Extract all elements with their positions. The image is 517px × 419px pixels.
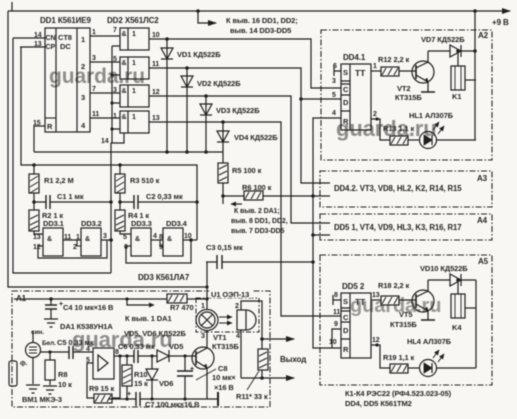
svg-text:КТ315Б: КТ315Б: [212, 342, 239, 351]
svg-text:C3 0,15 мк: C3 0,15 мк: [206, 243, 243, 252]
microphone BM1 MKE-3: [9, 329, 69, 404]
svg-text:К выв. 16 DD1, DD2;: К выв. 16 DD1, DD2;: [226, 16, 298, 25]
svg-text:&: &: [85, 236, 90, 243]
LED HL4 AL307B: [407, 337, 476, 377]
svg-text:K1: K1: [452, 92, 461, 101]
op-amp DA1: [86, 346, 134, 398]
label relays bottom: [345, 389, 452, 408]
node VD4 tap: [221, 120, 225, 124]
wire gate output 13 to DD5.2 C: [149, 122, 341, 316]
svg-text:13: 13: [152, 115, 160, 122]
wire +9V top bus: [8, 10, 510, 12]
svg-text:R13 1,1 к: R13 1,1 к: [383, 124, 415, 133]
pin 4: [240, 330, 242, 378]
svg-text:C6 0,33 мк: C6 0,33 мк: [118, 342, 155, 351]
svg-text:VD6: VD6: [159, 379, 173, 388]
resistor R3 510k: [119, 165, 121, 174]
wire A4 lower stub: [313, 234, 330, 236]
svg-text:+: +: [190, 366, 194, 373]
svg-text:8: 8: [159, 234, 163, 241]
resistor R4 1k: [115, 210, 125, 231]
diode VD4 KD522B: [217, 131, 229, 142]
ground emitter: [421, 91, 435, 93]
wire right vertical A5: [475, 280, 477, 368]
svg-text:R11* 33 к: R11* 33 к: [236, 392, 268, 401]
svg-text:4: 4: [236, 333, 240, 340]
svg-text:1: 1: [113, 113, 117, 120]
resistor R8 10k: [43, 350, 72, 394]
svg-text:&: &: [47, 236, 52, 243]
resistor R13 1.1k: [383, 124, 420, 145]
svg-text:син.: син.: [31, 329, 44, 336]
svg-text:DD4, DD5 К561ТМ2: DD4, DD5 К561ТМ2: [345, 399, 412, 408]
svg-text:K4: K4: [452, 323, 462, 332]
box A1 dashed: [12, 291, 270, 407]
svg-text:DD3.2: DD3.2: [81, 219, 102, 228]
box A3 dashed: [320, 171, 492, 207]
svg-text:DA1 К538УН1А: DA1 К538УН1А: [60, 322, 113, 331]
wire reset bus vertical to A boxes: [311, 118, 341, 348]
svg-text:CP: CP: [46, 44, 56, 51]
wire DD3.4 out: [183, 239, 197, 241]
transistor VT5 KT315B: [390, 280, 435, 329]
diode VD1 KD522B: [161, 48, 173, 59]
svg-text:14: 14: [101, 138, 109, 145]
svg-text:13: 13: [33, 234, 41, 241]
wire CN feedback left: [13, 38, 111, 273]
svg-text:5: 5: [332, 92, 336, 99]
svg-text:R6 100 к: R6 100 к: [242, 183, 272, 192]
pin 14 common stub: [111, 133, 124, 273]
wire DD3.1 in 12 loop: [38, 240, 107, 258]
svg-text:DD2 Х561ЛС2: DD2 Х561ЛС2: [107, 16, 159, 25]
svg-text:КТ315Б: КТ315Б: [390, 320, 417, 329]
resistor R7 470: [167, 294, 207, 312]
wire VD1 vertical: [166, 39, 168, 152]
wire gate output 10 to DD4.1 C: [149, 39, 341, 88]
svg-text:3: 3: [332, 78, 336, 85]
pin 1: [206, 262, 208, 310]
svg-text:5: 5: [86, 357, 90, 364]
svg-text:C2 0,33 мк: C2 0,33 мк: [146, 192, 183, 201]
svg-text:A2: A2: [478, 31, 489, 40]
svg-text:VD5: VD5: [169, 342, 183, 351]
svg-text:ВМ1 МКЭ-3: ВМ1 МКЭ-3: [22, 395, 62, 404]
resistor R10 15k: [122, 354, 148, 399]
capacitor C4 10uF: [44, 299, 114, 327]
svg-text:C7 100 мк×16 В: C7 100 мк×16 В: [145, 400, 200, 409]
svg-text:1: 1: [132, 114, 136, 121]
output 13 stub: [371, 299, 381, 301]
gate DD3.4: [163, 228, 183, 256]
diode VD2 KD522B: [181, 76, 193, 87]
svg-text:R1 2,2 М: R1 2,2 М: [44, 176, 74, 185]
svg-text:C: C: [343, 85, 349, 94]
resistor R2 1k: [29, 210, 39, 231]
capacitor C3 0.15uF: [206, 243, 315, 269]
svg-text:4: 4: [81, 121, 86, 130]
pin S terminal: [334, 66, 341, 76]
svg-text:DD3.4: DD3.4: [166, 219, 188, 228]
svg-text:11: 11: [92, 111, 99, 118]
wire gate output 12 to A4: [149, 96, 330, 223]
svg-text:4: 4: [332, 110, 336, 117]
wire reset bus from R pin15: [34, 151, 223, 153]
svg-text:10: 10: [184, 233, 192, 240]
svg-text:3: 3: [113, 87, 117, 94]
svg-text:14: 14: [34, 32, 42, 39]
svg-text:C1 1 мк: C1 1 мк: [57, 192, 84, 201]
pin S terminal: [333, 295, 341, 305]
svg-text:&: &: [167, 236, 172, 243]
optocoupler U1 OEP-13: [196, 262, 262, 378]
svg-text:1: 1: [132, 31, 136, 38]
svg-text:3: 3: [103, 233, 107, 240]
IC DD4.1 trigger: [334, 64, 390, 140]
capacitor C8 10uF: [177, 354, 236, 399]
svg-text:VT2: VT2: [397, 84, 410, 93]
svg-text:&: &: [122, 31, 127, 38]
svg-text:DD3.3: DD3.3: [131, 219, 152, 228]
output arrows: [241, 337, 306, 380]
IC DD2 X561LS2 gates: [109, 28, 149, 273]
svg-text:2: 2: [73, 244, 77, 251]
svg-text:TT: TT: [355, 68, 366, 78]
svg-text:10: 10: [152, 32, 160, 39]
diode VD3 KD522B: [200, 104, 212, 115]
svg-text:HL4 АЛ307Б: HL4 АЛ307Б: [407, 337, 452, 346]
svg-text:DD4.2. VT3, VD8, HL2, K2, R14,: DD4.2. VT3, VD8, HL2, K2, R14, R15: [334, 184, 462, 193]
transistor VT2 KT315B: [395, 51, 435, 102]
svg-text:HL1 АЛ307Б: HL1 АЛ307Б: [409, 111, 454, 120]
IC DD1 K561IE9 counter: [13, 28, 120, 152]
svg-text:4: 4: [153, 233, 157, 240]
svg-text:1: 1: [132, 60, 136, 67]
wire DD3.1 out to DD3.2 in: [63, 239, 81, 241]
pin 3: [206, 330, 208, 332]
svg-text:DC: DC: [60, 42, 71, 51]
svg-text:10 к: 10 к: [58, 380, 72, 389]
svg-text:1: 1: [92, 29, 96, 36]
diode VD7 KD522B: [421, 35, 476, 57]
pin 14 CN stub: [13, 37, 45, 39]
lamp oval: [196, 310, 218, 331]
wire CP bus to osc2 output: [21, 47, 197, 240]
svg-text:DD5 2: DD5 2: [342, 282, 365, 291]
svg-text:выв. 8 DD1, DD2,: выв. 8 DD1, DD2,: [231, 218, 288, 225]
svg-text:CT8: CT8: [58, 33, 72, 42]
svg-text:11: 11: [152, 61, 159, 68]
svg-text:Бел.: Бел.: [42, 340, 56, 347]
svg-text:R9 15 к: R9 15 к: [89, 384, 114, 393]
svg-text:D: D: [343, 326, 349, 335]
svg-text:11: 11: [333, 309, 340, 316]
svg-text:R10: R10: [134, 370, 147, 379]
svg-text:1: 1: [81, 35, 85, 44]
svg-text:R8: R8: [58, 370, 67, 379]
svg-text:A5: A5: [478, 257, 489, 266]
svg-text:12: 12: [33, 244, 41, 251]
box A4 dashed: [320, 214, 492, 240]
pin 13 CP stub: [20, 46, 45, 48]
svg-text:4: 4: [86, 346, 90, 353]
output 1 stub: [371, 70, 381, 72]
diode VD10 KD522B: [420, 264, 476, 286]
svg-text:2: 2: [235, 303, 239, 310]
svg-text:R7 470: R7 470: [170, 303, 194, 312]
output stubs pins 1,3,7,11: [90, 35, 120, 37]
box A2 dashed: [321, 30, 492, 160]
svg-text:С4 10 мк×16 В: С4 10 мк×16 В: [63, 303, 114, 312]
svg-text:+9 В: +9 В: [492, 18, 509, 27]
svg-text:A4: A4: [477, 216, 488, 225]
svg-text:9: 9: [159, 244, 163, 251]
svg-text:&: &: [122, 114, 127, 121]
diode VD6: [146, 354, 173, 399]
svg-text:7: 7: [113, 27, 117, 34]
svg-text:выв. 14 DD3-DD5: выв. 14 DD3-DD5: [230, 26, 291, 35]
svg-text:5: 5: [113, 56, 117, 63]
wire VD3 vertical: [205, 96, 207, 152]
arrow to K vyv 1 DA1: [127, 299, 154, 305]
wire VD4 vertical: [222, 122, 224, 152]
svg-text:R5 100 к: R5 100 к: [232, 166, 262, 175]
resistor R6 100k: [221, 183, 315, 200]
svg-text:VT5: VT5: [399, 310, 412, 319]
wire DD3.2 out to node: [101, 239, 113, 241]
svg-text:1: 1: [373, 63, 377, 70]
svg-text:12: 12: [152, 89, 160, 96]
svg-text:13: 13: [34, 41, 42, 48]
wire DD3.3 in 6 loop: [126, 240, 191, 263]
svg-text:C: C: [343, 313, 349, 322]
svg-text:1: 1: [132, 88, 136, 95]
svg-text:VT1: VT1: [213, 333, 226, 342]
wire DD3.3 out to DD3.4 in: [151, 239, 163, 241]
capacitor C2 0.33uF: [120, 201, 197, 203]
wire to K vyv 2 DA1 arrow: [231, 204, 288, 235]
svg-text:выв. 7 DD3-DD5: выв. 7 DD3-DD5: [231, 228, 284, 235]
svg-text:1: 1: [76, 234, 80, 241]
svg-text:TT: TT: [355, 297, 366, 307]
svg-text:VD7 КД522Б: VD7 КД522Б: [421, 35, 465, 44]
capacitor C6 0.33uF: [118, 342, 157, 363]
IC DD5.2 trigger: [332, 293, 390, 368]
svg-text:+: +: [127, 391, 131, 398]
svg-text:&: &: [122, 60, 127, 67]
svg-text:К1-К4 РЭС22 (РФ4.523.023-05): К1-К4 РЭС22 (РФ4.523.023-05): [345, 389, 452, 398]
node VD3 tap: [204, 94, 208, 98]
wire DD4.1 D tap: [301, 98, 341, 100]
svg-text:3: 3: [201, 333, 205, 340]
svg-text:9: 9: [334, 321, 338, 328]
gate DD3.1: [43, 228, 63, 256]
resistor R12 2.2k: [378, 55, 416, 76]
svg-text:13: 13: [372, 292, 380, 299]
svg-text:3: 3: [81, 93, 85, 102]
svg-text:3: 3: [92, 55, 96, 62]
svg-text:S: S: [343, 68, 348, 77]
wire gate output 11 to DD4.1 D: [149, 68, 330, 183]
resistor R1 2.2M: [33, 165, 35, 174]
tick top-left: [11, 2, 13, 11]
diode VD5: [157, 342, 196, 362]
node VD1 tap: [165, 37, 169, 41]
svg-text:К выв. 2 DA1;: К выв. 2 DA1;: [234, 208, 280, 215]
svg-text:R: R: [47, 122, 53, 131]
output 12 stub: [371, 345, 390, 368]
svg-text:&: &: [135, 236, 140, 243]
svg-text:8: 8: [334, 292, 338, 299]
svg-text:Выход: Выход: [280, 355, 306, 364]
svg-text:7: 7: [92, 86, 96, 93]
svg-text:5: 5: [123, 234, 127, 241]
svg-text:10: 10: [329, 339, 337, 346]
svg-text:К выв. 1 DA1: К выв. 1 DA1: [125, 314, 172, 323]
LED HL1 AL307B: [409, 111, 476, 149]
svg-text:VD2 КД522Б: VD2 КД522Б: [197, 79, 241, 88]
svg-text:DD3 К561ЛА7: DD3 К561ЛА7: [138, 273, 190, 282]
photoresistor: [246, 310, 256, 330]
svg-text:2: 2: [373, 111, 377, 118]
wire A3 lower stub: [313, 195, 330, 197]
svg-text:12: 12: [372, 337, 380, 344]
resistor R19 1.1k: [383, 353, 420, 373]
svg-text:6: 6: [124, 244, 128, 251]
mic case: [9, 361, 17, 386]
pin 2: [241, 301, 262, 349]
wire A1 top rail: [14, 297, 167, 305]
svg-text:×16 В: ×16 В: [214, 383, 234, 392]
svg-text:6: 6: [333, 63, 337, 70]
svg-text:U1 ОЭП-13: U1 ОЭП-13: [211, 290, 249, 299]
svg-text:DD3.1: DD3.1: [43, 219, 64, 228]
bottom rail and C7: [108, 391, 218, 409]
node DD3.2 output: [109, 238, 113, 242]
svg-text:CN: CN: [46, 35, 56, 42]
wire VD2 vertical: [186, 68, 188, 152]
svg-text:С8: С8: [218, 364, 227, 373]
svg-text:КТ315Б: КТ315Б: [395, 93, 422, 102]
svg-text:DD4.1: DD4.1: [343, 53, 366, 62]
wire common second inputs vertical: [111, 46, 113, 143]
svg-text:R: R: [343, 345, 349, 354]
node +9V A2 junction: [473, 9, 477, 13]
svg-text:2: 2: [81, 62, 85, 71]
resistor R5 100k: [218, 152, 262, 204]
svg-text:11: 11: [64, 234, 71, 241]
svg-text:DD1 К561ИЕ9: DD1 К561ИЕ9: [40, 16, 92, 25]
svg-text:R18 2,2 к: R18 2,2 к: [378, 281, 410, 290]
svg-text:&: &: [122, 88, 127, 95]
resistor R9 15k: [89, 354, 122, 403]
svg-text:S: S: [343, 297, 348, 306]
relay K4: [451, 278, 476, 332]
gate DD3.3: [131, 228, 151, 256]
node top branch junction: [196, 9, 200, 13]
oscillator 1 and 2: [21, 47, 199, 263]
svg-text:VD4 КД522Б: VD4 КД522Б: [234, 133, 278, 142]
svg-text:VD1 КД522Б: VD1 КД522Б: [177, 50, 221, 59]
pin 15 R stub: [34, 126, 45, 152]
box A5 dashed: [320, 255, 492, 385]
svg-text:R19 1,1 к: R19 1,1 к: [383, 353, 415, 362]
output 2 stub: [371, 119, 390, 140]
arrows: [219, 316, 232, 318]
svg-text:ф.: ф.: [20, 360, 28, 367]
svg-text:VD5, VD6 КД522Б: VD5, VD6 КД522Б: [124, 329, 186, 338]
svg-text:VD3 КД522Б: VD3 КД522Б: [216, 106, 260, 115]
capacitor C5 0.33uF: [57, 338, 94, 359]
gate DD3.2: [81, 228, 101, 256]
svg-text:VD10 КД522Б: VD10 КД522Б: [420, 264, 468, 273]
capacitor C1 1uF: [34, 201, 111, 203]
wire left outer border: [8, 11, 206, 287]
pin D bracket to R: [332, 329, 341, 348]
wire +9V drop into A2: [473, 11, 477, 140]
transistor VT1 KT315B: [192, 332, 240, 399]
wire branch to K vyv 16 arrow: [198, 11, 216, 23]
svg-text:15: 15: [33, 120, 41, 127]
resistor R11 33k: [236, 349, 268, 401]
svg-text:R12 2,2 к: R12 2,2 к: [378, 55, 410, 64]
svg-text:R3 510 к: R3 510 к: [130, 176, 160, 185]
resistor R18 2.2k: [378, 281, 416, 305]
node VD2 tap: [185, 66, 189, 70]
svg-text:DD5 1, VT4, VD9, HL3, K3, R16,: DD5 1, VT4, VD9, HL3, K3, R16, R17: [334, 223, 461, 232]
svg-text:10 мк×: 10 мк×: [212, 373, 236, 382]
svg-text:R: R: [343, 117, 349, 126]
label K vyv 1 DA1: [60, 314, 186, 338]
svg-text:1: 1: [201, 303, 205, 310]
svg-text:A3: A3: [477, 174, 488, 183]
node C1 right: [109, 200, 113, 204]
relay K1: [451, 49, 476, 101]
svg-text:D: D: [343, 98, 349, 107]
